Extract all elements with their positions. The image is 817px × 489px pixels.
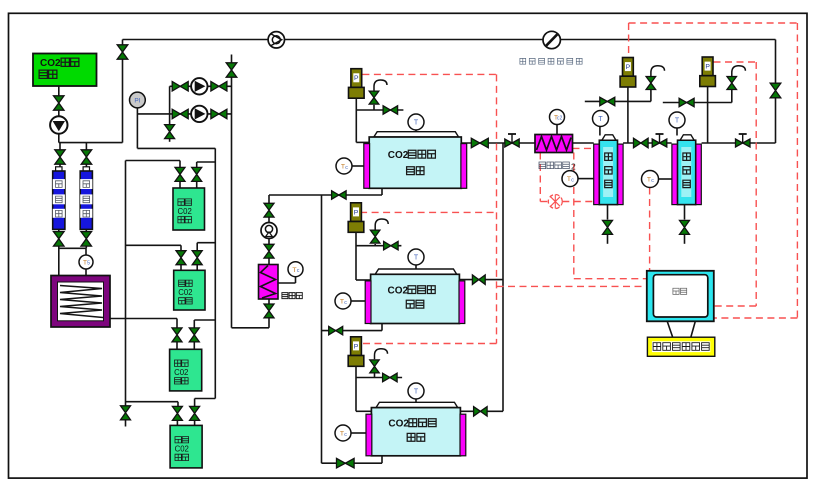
instrument Tc (preheater) (278, 282, 296, 284)
preheater label (282, 293, 302, 299)
purifier column 1 (56, 167, 62, 171)
svg-text:2: 2 (571, 162, 576, 172)
wire: bus drain stub (125, 420, 127, 426)
signal: sep1 P via top dashed (628, 23, 630, 58)
PI gauge (130, 92, 146, 108)
wire: pump right riser x231.5 (231, 55, 233, 328)
signal: kettle P bus x496.5 (362, 73, 496, 75)
valve below preheater (264, 304, 274, 318)
wire: left riser x122 (122, 40, 124, 143)
svg-text:c: c (344, 432, 347, 438)
separator 2 (672, 144, 678, 205)
wire: preheater top to kettle feed bus (269, 194, 322, 196)
wire: pump discharge to riser (58, 134, 60, 143)
T-valve after separator 2 (742, 134, 744, 144)
svg-text:T: T (414, 389, 419, 396)
preheater column: valve, circ pump, valve (264, 203, 274, 217)
svg-text:PI: PI (134, 97, 140, 104)
separator P transmitters (623, 58, 634, 77)
valve (pump 1 discharge bowtie) (211, 82, 227, 92)
valves between separators (634, 138, 649, 148)
wire: main gas line y143 (461, 142, 535, 144)
wire: evaporator outlet to tank bus (110, 318, 177, 320)
wire: tank3 right feed (194, 319, 215, 321)
compressor on top line (268, 32, 284, 48)
svg-text:CO2: CO2 (388, 285, 409, 296)
wire: riser to preheater (232, 327, 270, 329)
wire: kettle outlet header x503 (502, 143, 504, 411)
svg-text:C02: C02 (174, 368, 188, 377)
wire: left tank bus x125.5 (125, 161, 127, 406)
signal: sep2 P x756.2 (714, 61, 757, 63)
svg-text:c: c (571, 177, 574, 183)
svg-text:C02: C02 (178, 207, 192, 216)
svg-text:CO2: CO2 (40, 58, 61, 69)
valve below pump row (165, 125, 175, 139)
wire: kettle3 bottom feed (322, 462, 383, 464)
wire: right riser x775.5 (775, 40, 777, 144)
kettle 1 (CO2 drying) (374, 132, 459, 137)
wire: tank2 left feed (126, 244, 182, 246)
signal: HX2 refrigeration loop (539, 153, 541, 202)
pump P3 (CO2 circulation) (191, 106, 207, 122)
valve V7 (tank2 fill) (176, 251, 186, 265)
svg-text:P: P (354, 209, 359, 216)
svg-text:P: P (626, 64, 631, 71)
kettle feed bowties (332, 191, 347, 199)
svg-text:T: T (414, 120, 419, 127)
wire: tank1 right feed (197, 161, 216, 163)
valve V6 (tank1 outlet) (192, 167, 202, 181)
wire: tank4 left feed (126, 401, 179, 403)
flowmeter label (520, 58, 582, 64)
valve (pump 1 suction bowtie) (172, 82, 188, 92)
liquid CO2 tanks (4x) (173, 188, 205, 230)
separator drains (607, 205, 609, 220)
svg-text:c: c (344, 300, 347, 306)
wire: PI stem and header (136, 108, 138, 149)
T-valve after header (511, 134, 513, 144)
svg-text:C02: C02 (175, 445, 189, 454)
svg-text:c: c (297, 268, 300, 274)
DAQ system box (647, 337, 714, 356)
wire: right tank bus x215 (214, 148, 216, 398)
wire: kettle2 bottom feed (322, 330, 383, 332)
wire: kettle2 outlet (459, 279, 503, 281)
wire: preheater column (268, 195, 270, 203)
drain valve on left bus (121, 406, 131, 420)
wire: tank1 left feed (126, 160, 181, 162)
monitor stand (667, 321, 672, 337)
wire: storage tank to pump (58, 86, 60, 96)
wire: purifier tops (59, 143, 61, 150)
svg-text:P: P (705, 64, 710, 71)
wire: dip tubes (196, 188, 198, 227)
kettle T instruments (415, 130, 417, 132)
svg-text:T: T (675, 118, 680, 125)
wire: tank2 right feed (197, 242, 215, 244)
valve V11 (tank4 fill) (172, 406, 182, 420)
kettle vent lines + hooks + valves (356, 109, 403, 111)
svg-text:c: c (651, 178, 654, 184)
evaporator (water bath with coil) (51, 276, 110, 328)
separator vent lines (585, 100, 651, 102)
HX2 label (539, 162, 569, 169)
svg-text:T: T (414, 255, 419, 262)
valve V12 (tank4 outlet) (190, 406, 200, 420)
separator 1 (594, 144, 600, 205)
separator Tc instruments (578, 178, 594, 180)
wire: kettle3 outlet (460, 410, 503, 412)
wire: pump block rows (170, 85, 232, 87)
instrument Tc2 (556, 125, 558, 135)
kettle 2 (375, 269, 457, 274)
wire: purifier bottoms join (58, 229, 60, 231)
signal: Tc bus x573.8 (573, 153, 575, 279)
kettle 3 (376, 402, 458, 407)
valve below storage tank (54, 96, 65, 110)
svg-text:c2: c2 (557, 116, 563, 122)
valve (pump 2 suction bowtie) (172, 109, 188, 119)
valve V5 (tank1 fill) (175, 167, 185, 181)
wire: kettle feed bus x321.5 (321, 195, 323, 463)
valve (pump 2 discharge bowtie) (211, 109, 227, 119)
kettle Tc instruments (352, 165, 364, 167)
valves below purifiers (54, 232, 65, 247)
purifier column 2 (83, 167, 89, 171)
valve on right riser (770, 83, 781, 98)
svg-text:CO2: CO2 (388, 150, 409, 161)
svg-text:c: c (345, 165, 348, 171)
pump P2 (CO2 circulation) (191, 78, 207, 94)
svg-text:CO2: CO2 (388, 419, 409, 430)
signal: sep2 Tc x649.6 (649, 188, 651, 271)
wire: tank4 right feed (195, 398, 216, 400)
preheater (magenta, coil) (259, 265, 279, 300)
kettle P transmitters + stems (351, 69, 362, 88)
vent valve on riser x231.5 (226, 63, 237, 77)
wire: T5 stem (85, 248, 87, 255)
valves above purifiers (55, 150, 65, 164)
wire: tank valve stems (179, 182, 181, 188)
kettle outlet bowties (471, 138, 488, 148)
heat exchanger 2 (magenta) (535, 135, 573, 153)
svg-text:P: P (354, 75, 359, 82)
valve V8 (tank2 outlet) (192, 251, 202, 265)
valve on left riser (117, 45, 128, 59)
svg-text:P: P (354, 343, 359, 350)
wire: kettle1 bottom feed (322, 194, 383, 196)
computer monitor (647, 271, 714, 322)
valve V10 (tank3 outlet) (189, 328, 199, 342)
compressor (refrigeration) dashed circle (548, 195, 562, 209)
svg-text:T: T (598, 116, 603, 123)
wire: top recycle line (123, 39, 776, 41)
valve V9 (tank3 fill) (172, 328, 182, 342)
instrument T5 (79, 255, 93, 269)
pump P1 (feed pump, triangle down) (50, 116, 67, 133)
svg-text:C02: C02 (178, 288, 192, 297)
tank: CO2 low-temp storage (33, 54, 97, 87)
svg-text:5: 5 (87, 261, 90, 267)
separator T instruments (599, 127, 601, 136)
rotameter (flow meter) (543, 31, 560, 48)
